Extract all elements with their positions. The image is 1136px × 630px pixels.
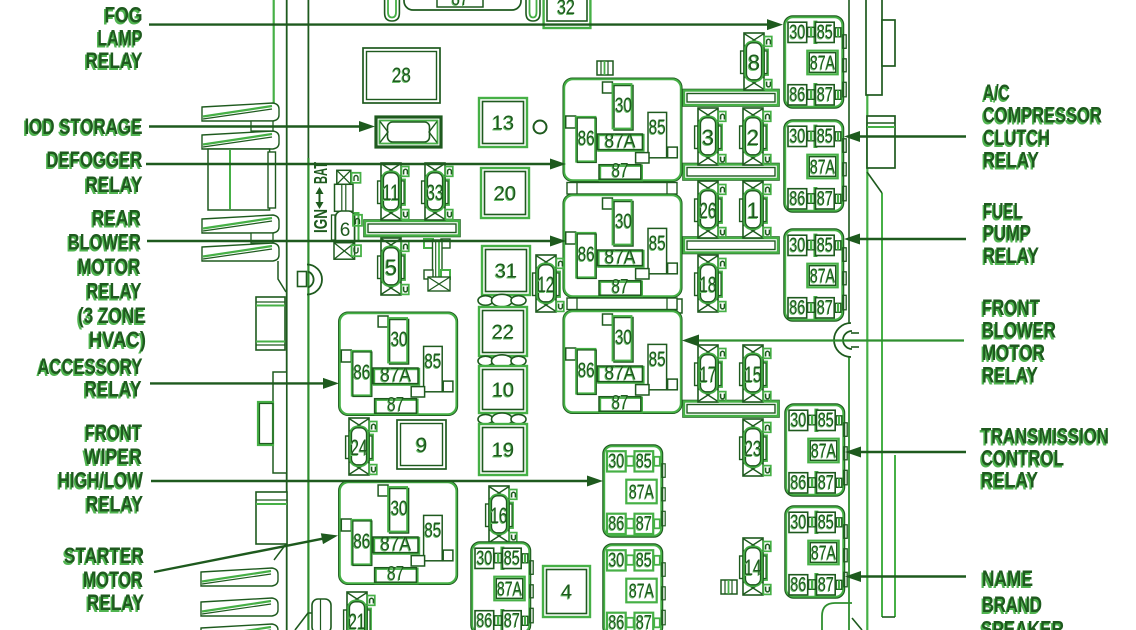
relay M5 speaker <box>785 506 847 598</box>
svg-text:SPEAKER: SPEAKER <box>981 617 1064 630</box>
wire IOD arrow <box>149 125 365 127</box>
svg-text:STARTER: STARTER <box>64 543 144 568</box>
fuse F16 <box>486 486 517 543</box>
wire starter arrow (diagonal) <box>154 538 327 572</box>
bus bar 4 <box>683 400 780 417</box>
svg-text:11: 11 <box>383 180 400 205</box>
fuse F15 <box>740 345 771 402</box>
svg-text:33: 33 <box>427 180 444 205</box>
svg-text:REAR: REAR <box>92 206 141 231</box>
wire defogger arrow <box>146 163 556 165</box>
fuse F17 <box>695 345 726 402</box>
svg-text:LAMP: LAMP <box>98 26 143 51</box>
fuse F23 <box>740 419 771 476</box>
svg-text:9: 9 <box>416 434 428 457</box>
connector mid block <box>208 149 270 210</box>
wire below mount block 2 <box>274 544 286 560</box>
svg-text:BRAND: BRAND <box>982 592 1042 617</box>
fuse F5 <box>378 238 409 295</box>
connector stack band E <box>201 568 278 586</box>
wire bottom left diagonal <box>295 613 320 630</box>
fuse box 10 <box>479 366 527 413</box>
svg-text:13: 13 <box>492 113 514 135</box>
svg-text:10: 10 <box>492 380 514 402</box>
fuse F11 <box>378 163 409 220</box>
fuse box 13 <box>479 98 527 147</box>
svg-text:RELAY: RELAY <box>981 468 1038 493</box>
connector grid icon 3 <box>666 299 682 313</box>
fuse F26 <box>695 181 726 238</box>
svg-text:FRONT: FRONT <box>85 420 142 445</box>
svg-text:8: 8 <box>748 50 760 75</box>
wire a/c clutch arrow <box>854 135 966 137</box>
svg-text:BLOWER: BLOWER <box>68 230 141 255</box>
label IGN-BAT <box>311 162 331 233</box>
fuse F3 <box>695 108 726 165</box>
relay M6 wiper hi/lo <box>603 445 665 537</box>
relay U1 defogger <box>563 78 682 182</box>
relay M3 fuel pump <box>784 229 846 321</box>
svg-text:DEFOGGER: DEFOGGER <box>47 147 143 172</box>
wire rear blower arrow <box>147 240 556 242</box>
right top housing post <box>866 0 882 95</box>
connector grid icon 2 <box>721 580 737 594</box>
fuse F21 <box>344 592 375 630</box>
left mount block 1 <box>256 297 285 350</box>
fuse F12 <box>533 255 564 312</box>
svg-text:MOTOR: MOTOR <box>78 254 141 279</box>
wire wiper hi/lo arrow <box>151 480 593 482</box>
svg-text:COMPRESSOR: COMPRESSOR <box>983 103 1102 128</box>
fuse box 32 <box>544 0 591 28</box>
fuse F6 assembly <box>332 170 363 259</box>
connector stack band D <box>202 243 279 261</box>
svg-text:FOG: FOG <box>105 3 143 28</box>
node C notch right <box>834 323 851 357</box>
svg-text:MOTOR: MOTOR <box>83 567 143 592</box>
svg-text:BLOWER: BLOWER <box>982 318 1056 343</box>
fuse box 22 <box>479 307 527 356</box>
svg-text:RELAY: RELAY <box>86 492 143 517</box>
svg-text:CLUTCH: CLUTCH <box>983 125 1050 150</box>
fuse box 28 <box>363 48 440 103</box>
wire left inner wall <box>307 0 309 158</box>
relay U4 accessory <box>339 312 458 416</box>
svg-text:RELAY: RELAY <box>86 172 143 197</box>
svg-text:4: 4 <box>561 582 572 604</box>
fuse box 20 <box>481 168 529 218</box>
oval contacts row 2 <box>478 413 526 425</box>
svg-text:87: 87 <box>452 0 469 10</box>
relay U3 front blower <box>563 310 682 414</box>
svg-text:RELAY: RELAY <box>983 243 1039 268</box>
bus bar 3 <box>683 237 780 254</box>
wire speaker arrow <box>855 575 966 577</box>
wire transmission arrow <box>855 451 966 453</box>
fuse box 19 <box>479 424 527 475</box>
relay U5 starter motor <box>339 481 458 585</box>
connector U tube 1 <box>385 0 400 21</box>
svg-text:20: 20 <box>494 183 516 205</box>
fuse F24 <box>346 418 377 475</box>
svg-text:NAME: NAME <box>982 566 1033 591</box>
svg-text:1: 1 <box>747 198 759 223</box>
wire left wall <box>286 0 288 630</box>
svg-text:HVAC): HVAC) <box>89 327 146 352</box>
fuse F8 <box>741 33 772 90</box>
svg-text:31: 31 <box>495 261 517 283</box>
connector grid icon 1 <box>597 61 613 75</box>
wire right outer wall <box>881 193 883 617</box>
wire accessory arrow <box>150 382 329 384</box>
svg-text:A/C: A/C <box>983 80 1010 105</box>
svg-text:HIGH/LOW: HIGH/LOW <box>58 468 143 493</box>
relay M2 a/c clutch <box>784 120 846 212</box>
svg-text:RELAY: RELAY <box>983 148 1039 173</box>
fuse F14 <box>740 538 771 595</box>
svg-text:6: 6 <box>340 220 351 241</box>
svg-text:MOTOR: MOTOR <box>982 340 1045 365</box>
relay M7 aux <box>603 544 665 630</box>
svg-text:FRONT: FRONT <box>982 295 1040 320</box>
svg-text:IOD STORAGE: IOD STORAGE <box>25 114 143 139</box>
svg-text:17: 17 <box>700 362 717 387</box>
fuse F18 <box>695 255 726 312</box>
svg-text:21: 21 <box>349 609 366 630</box>
svg-text:IGN: IGN <box>311 209 331 233</box>
node circle <box>534 121 547 134</box>
wire fog lamp arrow <box>149 23 773 25</box>
svg-text:24: 24 <box>351 435 368 460</box>
wire below band D <box>278 261 286 292</box>
fuse box 4 <box>543 566 590 617</box>
connector U tube 2 <box>526 0 540 21</box>
svg-text:18: 18 <box>700 272 717 297</box>
oval contacts row 1 <box>478 355 526 367</box>
bus bar 1 <box>683 89 780 106</box>
svg-text:19: 19 <box>492 440 514 462</box>
relay U2 rear blower <box>563 194 682 298</box>
svg-text:BAT: BAT <box>311 162 331 184</box>
relay M4 transmission <box>785 404 847 496</box>
fuse F2 <box>740 108 771 165</box>
left mount block 2 <box>256 492 287 544</box>
relay U0 partial top <box>404 0 521 10</box>
svg-text:RELAY: RELAY <box>87 590 144 615</box>
wire right wall <box>848 0 850 323</box>
connector stack band C <box>202 215 279 233</box>
fuse F33 <box>422 163 453 220</box>
fuse box 31 <box>482 246 530 295</box>
oval contacts row 0 <box>478 294 526 306</box>
svg-text:RELAY: RELAY <box>982 363 1038 388</box>
svg-text:15: 15 <box>745 362 762 387</box>
wire right inner rail <box>866 95 868 630</box>
svg-text:12: 12 <box>538 272 555 297</box>
wire fuel pump arrow <box>854 238 966 240</box>
bottom right housing curve <box>822 603 852 630</box>
fuse box 9 <box>397 420 446 469</box>
svg-text:16: 16 <box>491 503 508 528</box>
svg-text:RELAY: RELAY <box>86 48 143 73</box>
wire right diagonal <box>867 172 882 193</box>
right mount tab <box>867 116 895 168</box>
svg-text:23: 23 <box>745 436 762 461</box>
wire front blower arrow <box>692 339 964 341</box>
relay M1 fog lamp <box>784 16 846 108</box>
left wall tab <box>273 372 287 473</box>
connector stack band A <box>202 103 279 121</box>
fuse holder empty <box>424 239 450 291</box>
svg-text:5: 5 <box>385 255 397 280</box>
svg-text:(3 ZONE: (3 ZONE <box>78 303 146 328</box>
bus bar 5 <box>364 220 461 237</box>
svg-text:2: 2 <box>747 125 759 150</box>
svg-text:PUMP: PUMP <box>983 221 1031 246</box>
svg-text:32: 32 <box>557 0 575 19</box>
wire stack A-B link <box>251 121 273 131</box>
wire left inner rail <box>273 0 275 103</box>
fuse holder bottom partial <box>312 599 331 630</box>
wire stack C-D link <box>251 233 273 243</box>
svg-text:WIPER: WIPER <box>84 444 142 469</box>
node C notch left <box>307 265 322 295</box>
svg-text:RELAY: RELAY <box>85 377 142 402</box>
connector stack band G <box>201 624 278 630</box>
wire bar R1-R2 <box>567 183 677 195</box>
fuse F1 <box>740 181 771 238</box>
svg-text:26: 26 <box>700 198 717 223</box>
svg-text:28: 28 <box>392 64 411 87</box>
connector stack band B <box>202 131 279 149</box>
relay M8 <box>471 542 533 630</box>
svg-text:RELAY: RELAY <box>87 279 142 304</box>
bus bar 2 <box>683 163 780 180</box>
connector stack band F <box>201 598 278 616</box>
svg-text:22: 22 <box>492 322 514 344</box>
svg-text:ACCESSORY: ACCESSORY <box>38 354 143 379</box>
IOD storage connector <box>376 117 441 147</box>
wire bar R2-R3 <box>567 298 677 310</box>
svg-text:14: 14 <box>745 555 762 580</box>
svg-text:3: 3 <box>702 125 714 150</box>
